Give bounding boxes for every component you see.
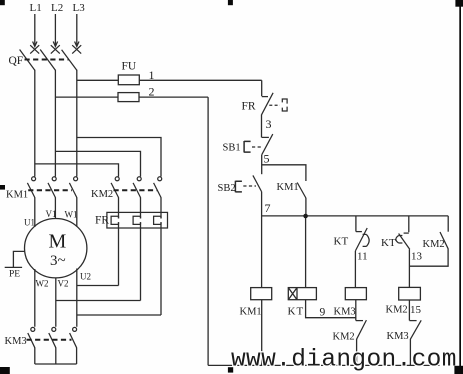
svg-text:SB1: SB1 (223, 143, 241, 154)
svg-text:15: 15 (410, 304, 422, 316)
svg-text:QF: QF (9, 55, 24, 67)
svg-text:KT: KT (381, 237, 396, 249)
svg-text:3~: 3~ (50, 253, 66, 269)
svg-text:KM1: KM1 (240, 307, 262, 318)
svg-text:5: 5 (264, 152, 270, 166)
svg-text:M: M (49, 231, 67, 253)
svg-text:7: 7 (265, 201, 271, 215)
svg-text:V1: V1 (46, 209, 57, 219)
svg-text:KM1: KM1 (277, 182, 299, 193)
svg-text:U1: U1 (24, 218, 35, 228)
svg-text:11: 11 (357, 251, 368, 263)
svg-text:KT: KT (334, 236, 349, 248)
svg-text:FR: FR (242, 101, 256, 113)
svg-text:www.diangon.com: www.diangon.com (231, 347, 457, 374)
svg-text:W2: W2 (36, 279, 49, 289)
svg-text:W1: W1 (65, 210, 78, 220)
svg-text:KM3: KM3 (387, 331, 409, 342)
svg-text:L3: L3 (73, 2, 86, 14)
svg-text:V2: V2 (58, 279, 69, 289)
svg-text:3: 3 (266, 117, 272, 131)
svg-text:L1: L1 (30, 2, 42, 14)
svg-text:KM3: KM3 (5, 336, 27, 347)
svg-text:KM1: KM1 (6, 190, 28, 201)
svg-text:1: 1 (149, 68, 155, 82)
svg-text:KM2: KM2 (333, 332, 355, 343)
svg-text:KM2: KM2 (423, 239, 445, 250)
svg-text:U2: U2 (80, 272, 91, 282)
svg-text:13: 13 (411, 251, 423, 263)
svg-text:PE: PE (9, 270, 20, 280)
svg-text:KM3: KM3 (334, 307, 356, 318)
svg-text:L2: L2 (51, 2, 63, 14)
svg-text:KM2: KM2 (91, 189, 113, 200)
svg-text:2: 2 (149, 85, 155, 99)
svg-text:FU: FU (122, 61, 137, 73)
svg-text:FR: FR (95, 215, 109, 227)
svg-text:SB2: SB2 (218, 183, 236, 194)
svg-text:KT: KT (288, 306, 305, 318)
svg-text:9: 9 (320, 307, 326, 319)
svg-text:KM2: KM2 (386, 305, 408, 316)
